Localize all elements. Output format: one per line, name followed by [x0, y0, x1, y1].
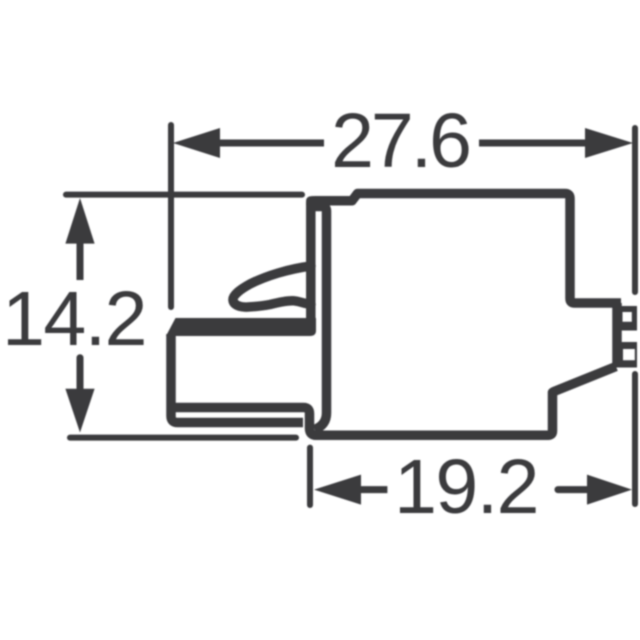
dimension line 19.2 left stub: [359, 486, 387, 493]
diagonal edge from tab 2 to lower right corner: [316, 367, 616, 436]
dimension line 27.6 left stub: [218, 140, 324, 147]
wire: top extension line of 14.2 dimension (y=194.6): [66, 192, 302, 198]
wire: bottom extension line of 14.2 dimension (y=437.6): [70, 435, 296, 441]
svg-text:14.2: 14.2: [2, 276, 146, 362]
connector body outline: top edge, right edge, step: [311, 194, 621, 304]
wire: right extension line upper segment (x=635): [632, 128, 638, 292]
tab 1 with square hole: [613, 306, 637, 331]
inner front wall line: [308, 207, 327, 430]
dimension line 14.2 lower stub: [77, 358, 84, 390]
svg-text:27.6: 27.6: [331, 98, 469, 184]
wire-entry housing: left edge and outer bottom: [171, 334, 303, 423]
thick top wall of wire entry (bar): [166, 318, 316, 336]
arrowhead right of 19.2: [587, 475, 632, 505]
arrowhead up of 14.2: [65, 198, 94, 244]
connector body left edge: [306, 203, 316, 331]
arrowhead down of 14.2: [65, 389, 94, 433]
wire: left extension line of 27.6 dimension (x=171): [168, 125, 174, 307]
arrowhead left of 19.2: [314, 475, 361, 505]
dimension line 14.2 upper stub: [77, 242, 84, 280]
wire: right extension line lower segment (x=635): [632, 374, 638, 504]
wire: left extension line of 19.2 dimension (x=310): [307, 448, 313, 505]
tab 2 with square hole: [613, 342, 637, 368]
inner bottom wall of wire entry: [174, 408, 316, 436]
arrowhead right of 27.6: [585, 128, 633, 158]
dimension line 27.6 right stub: [479, 140, 587, 147]
arrowhead left of 27.6: [173, 128, 220, 158]
tab spine right side (x=617): [612, 303, 622, 367]
dimension line 19.2 right stub: [558, 486, 589, 493]
latch arm: [233, 266, 311, 307]
svg-text:19.2: 19.2: [394, 444, 538, 530]
